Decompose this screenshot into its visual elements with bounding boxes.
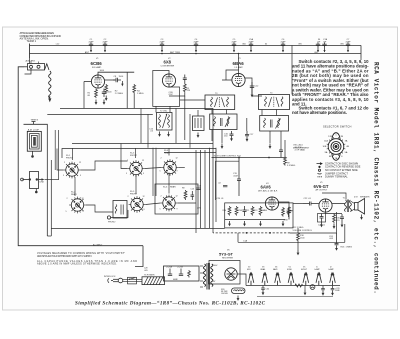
bottom notes text: [37, 252, 137, 265]
capacitor C5A: [249, 42, 253, 52]
wafer pin digits S1-5: [127, 196, 145, 211]
wire 6AV6 plate out: [279, 202, 289, 206]
switch wafer S1-5: [129, 196, 146, 213]
svg-text:47PF: 47PF: [232, 41, 238, 43]
ground under R15: [333, 224, 336, 229]
wire volume line: [212, 157, 286, 159]
transformer T6 power: [142, 277, 165, 285]
ground under C16: [230, 136, 233, 141]
junction dot volume line: [238, 157, 240, 159]
wire lower horizontal rail: [51, 228, 224, 230]
svg-text:2: 2: [128, 196, 129, 198]
svg-text:C20 .01: C20 .01: [217, 198, 225, 200]
svg-text:.0047: .0047: [233, 175, 239, 177]
svg-text:4 OF 6BA6: 4 OF 6BA6: [295, 149, 306, 152]
filter choke L13: [232, 288, 246, 294]
wire feedback lower: [238, 241, 345, 243]
svg-text:40MF: 40MF: [173, 279, 179, 281]
coil L1 antenna coil: [49, 71, 51, 98]
svg-text:REAR: REAR: [71, 193, 77, 196]
svg-text:TERM 1: TERM 1: [27, 39, 37, 43]
wire term3 to right rail: [24, 124, 48, 236]
ground under padder: [197, 133, 200, 138]
svg-text:I.F. AMP.: I.F. AMP.: [235, 66, 244, 69]
svg-text:12: 12: [176, 196, 178, 198]
resistor R1 cathode: [95, 89, 98, 99]
wire routing bus C: [164, 152, 216, 154]
ground speaker: [360, 215, 363, 220]
wire AVC rail: [60, 108, 213, 110]
capacitor C1: [89, 42, 93, 52]
transformer T3 1st IF box: [205, 95, 235, 110]
svg-text:1 MEG: 1 MEG: [137, 93, 144, 95]
wire grid 6CB6 left: [84, 81, 91, 83]
resistor R14: [259, 206, 262, 216]
resistor R10: [228, 206, 231, 216]
junction dots on bus lines: [90, 45, 349, 55]
box below T3 (IF network): [210, 114, 237, 130]
wire: left bus tick: [29, 44, 31, 59]
wire B+ feed to T4: [291, 45, 293, 94]
wire vertical x127: [126, 72, 128, 108]
wafer pin digits S1-1: [63, 162, 81, 177]
svg-text:1 MEG: 1 MEG: [346, 247, 353, 249]
svg-text:11A: 11A: [324, 139, 328, 142]
svg-text:ABOVE 1.0 ARE IN MMF UNLESS OT: ABOVE 1.0 ARE IN MMF UNLESS OTHERWISE IN…: [37, 263, 117, 266]
capacitor C21: [243, 206, 247, 216]
wire risers in converter area: [141, 108, 190, 196]
wire T5 secondary to speaker: [350, 201, 354, 212]
capacitor C30 to ground: [261, 286, 265, 290]
resistor R9: [284, 156, 287, 166]
svg-text:ANT: ANT: [85, 51, 90, 54]
capacitor C8 interstage: [113, 78, 121, 82]
rectifier section box: [209, 261, 240, 285]
wire T5 top B+: [322, 193, 346, 200]
svg-text:9: 9: [143, 173, 144, 175]
svg-text:INTERLOCK: INTERLOCK: [104, 276, 116, 278]
svg-text:+C25B: +C25B: [177, 267, 184, 269]
capacitor C23 boxed: [318, 214, 326, 223]
ground dot below loop: [31, 155, 34, 158]
switch S2 on AC line: [128, 277, 137, 284]
svg-text:AND SHOULD HOLD WITHIN ±20% WI: AND SHOULD HOLD WITHIN ±20% WITH 117 V. …: [37, 255, 92, 258]
ground under R14A: [282, 221, 285, 226]
wire arrow to AVC: [121, 81, 123, 86]
wire antenna box stubs: [31, 62, 39, 64]
ground under C23: [320, 222, 323, 227]
padder box C1C: [193, 116, 205, 131]
resistor R14A right of 6AV6: [282, 207, 285, 217]
resistor R13: [251, 206, 254, 216]
svg-text:R.F. AMP.: R.F. AMP.: [92, 66, 102, 69]
svg-text:2.2 MEG: 2.2 MEG: [115, 93, 124, 95]
svg-text:REAR: REAR: [170, 185, 176, 188]
svg-text:700V: 700V: [213, 265, 218, 267]
wire link stub: [35, 189, 37, 192]
potentiometer R12 volume control: [288, 206, 293, 220]
switch wafer S1-1: [64, 162, 81, 179]
svg-text:5: 5: [126, 173, 127, 175]
wire feedback line down: [290, 212, 337, 233]
tube V3 6BA6: [232, 73, 245, 86]
svg-text:+C25A: +C25A: [166, 266, 173, 269]
wire link to wafer: [45, 179, 59, 181]
transformer T4 2nd IF box: [259, 95, 290, 110]
svg-text:25MF: 25MF: [335, 290, 341, 292]
resistor R2: [105, 84, 108, 94]
wire riser x58: [58, 130, 60, 180]
wire 6BA6 plate to T4: [245, 78, 262, 96]
wire T3 box verticals: [211, 110, 213, 115]
selector switch cam disc: [327, 133, 346, 161]
capacitor C16 to ground: [230, 131, 234, 135]
capacitor C5: [232, 42, 236, 52]
filter box C25: [164, 266, 200, 281]
svg-text:2: 2: [67, 198, 68, 200]
svg-text:12: 12: [143, 196, 145, 198]
wire heater ground bus: [257, 296, 333, 298]
wire 6AV6 out to C22: [293, 203, 303, 205]
wire L corner: [216, 161, 240, 200]
wire line1 drop to T3: [246, 118, 248, 131]
svg-text:22K: 22K: [187, 90, 191, 92]
capacitor C16A on riser: [223, 185, 227, 186]
wire wafer interconnects: [57, 144, 196, 213]
wire wafer risers: [73, 148, 170, 196]
svg-text:47PF: 47PF: [194, 41, 200, 43]
wire 6V6 plate to T5: [332, 203, 344, 205]
capacitor C2: [103, 42, 107, 52]
svg-text:.005: .005: [144, 270, 148, 272]
svg-text:C30: C30: [266, 289, 269, 291]
capacitor C24 vertical: [335, 233, 339, 245]
ground under C29: [331, 290, 334, 295]
tube V6 5Y3-GT: [225, 268, 237, 280]
selector switch legend: [325, 162, 361, 178]
ground under C12: [251, 92, 254, 97]
wire riser R15 to feedback: [344, 224, 346, 242]
svg-text:C22 .01: C22 .01: [304, 198, 312, 200]
svg-text:9: 9: [177, 171, 178, 173]
wire connector v238: [237, 233, 239, 242]
loop antenna L2: [27, 131, 41, 151]
svg-text:R8: R8: [182, 188, 184, 190]
wire rail x30: [29, 58, 31, 64]
wire T4 box verticals: [261, 110, 263, 116]
ground under C30: [262, 290, 265, 295]
svg-text:47PF: 47PF: [249, 41, 255, 43]
wafer pin digits S1-6: [160, 196, 178, 211]
ground under box T3 left: [221, 144, 224, 149]
capacitor C6: [281, 42, 285, 52]
capacitor C4: [194, 42, 198, 52]
svg-text:6AV6: 6AV6: [273, 268, 277, 271]
interlock plug P1: [108, 278, 123, 283]
capacitor C7: [346, 42, 350, 52]
wire box around 6X8: [153, 71, 180, 107]
svg-text:C13: C13: [191, 189, 194, 191]
wire heater rail: [246, 285, 340, 287]
svg-text:R13: R13: [254, 210, 257, 212]
svg-text:DUMMY TERMINAL: DUMMY TERMINAL: [325, 176, 348, 179]
capacitor C29 electrolytic: [331, 286, 335, 290]
switch wafer S1-4: [162, 159, 179, 176]
svg-text:OSC: OSC: [169, 94, 174, 96]
wire middle vertical riser group: [196, 108, 216, 233]
svg-text:LINK: LINK: [40, 182, 45, 184]
svg-text:CHOKE: CHOKE: [221, 293, 228, 295]
wafer pin digits S1-2: [66, 198, 84, 213]
loudspeaker LS1: [355, 199, 365, 215]
tube V1 6CB6: [91, 75, 104, 88]
6AV6 section box: [225, 203, 293, 228]
svg-text:C1A: C1A: [243, 239, 248, 242]
wire 5Y3 output: [237, 274, 246, 286]
phono jack box: [113, 201, 127, 219]
switch contacts paragraph 2: [292, 105, 369, 115]
wire 6CB6 to interstage: [105, 79, 115, 81]
svg-text:1MEG: 1MEG: [262, 210, 268, 212]
svg-text:5: 5: [160, 171, 161, 173]
wafer pin digits S1-4: [160, 158, 178, 173]
svg-text:AF OUTPUT: AF OUTPUT: [316, 188, 329, 191]
wire: left outer rail: [18, 67, 143, 246]
coupling capacitor C22: [303, 202, 319, 206]
svg-text:47PF: 47PF: [160, 41, 166, 43]
svg-text:SELECTOR SWITCH: SELECTOR SWITCH: [323, 125, 352, 129]
svg-text:6AV6: 6AV6: [261, 185, 272, 190]
tube V4 6AV6: [265, 197, 278, 210]
bus capacitor value labels: [56, 38, 351, 54]
svg-text:Simplified Schematic Diagram—“: Simplified Schematic Diagram—“1R8”—Chass…: [75, 300, 266, 306]
wire riser x361 to output: [360, 58, 362, 61]
svg-text:9: 9: [144, 209, 145, 211]
resistor R5: [183, 83, 186, 93]
capacitor C6A: [316, 42, 320, 52]
wire plate 6CB6 to right: [98, 72, 134, 75]
svg-text:2: 2: [161, 158, 162, 160]
resistor R11: [235, 206, 238, 216]
legend symbols: [317, 163, 323, 177]
switch wafer S1-2: [69, 197, 86, 214]
svg-text:C21: C21: [246, 210, 249, 212]
resistor R19 on heater rail: [295, 284, 303, 287]
ground under C24: [335, 245, 338, 250]
capacitor C19: [237, 158, 241, 197]
capacitor C31 to ground: [321, 286, 325, 290]
ground under C5: [103, 100, 106, 105]
switch wafer S1-6: [161, 195, 178, 212]
svg-text:T6 POWER: T6 POWER: [144, 275, 155, 277]
svg-text:6V6GT: 6V6GT: [301, 269, 308, 271]
svg-text:5: 5: [66, 211, 67, 213]
phono jack J1: [107, 216, 110, 219]
ground under C24A: [341, 222, 344, 227]
svg-text:T2 OSC: T2 OSC: [160, 111, 168, 113]
wafer pin digits S1-3: [126, 160, 144, 175]
svg-text:5: 5: [160, 209, 161, 211]
svg-text:6BA6: 6BA6: [261, 268, 266, 271]
svg-text:FRONT: FRONT: [130, 194, 138, 196]
ground mid heater rail: [304, 290, 307, 295]
tube V2 6X8: [162, 74, 175, 87]
svg-text:5: 5: [63, 175, 64, 177]
svg-text:12: 12: [79, 162, 81, 164]
svg-text:470K: 470K: [238, 210, 243, 212]
resistor R15 cathode 6V6: [333, 214, 336, 224]
ground under R18: [297, 250, 300, 255]
capacitor C21A right of 6AV6: [287, 207, 291, 217]
svg-text:9: 9: [83, 211, 84, 213]
svg-text:47PF: 47PF: [281, 41, 287, 43]
svg-text:AC INPUT: AC INPUT: [93, 243, 103, 246]
wire osc section: [169, 93, 185, 96]
svg-text:RCA Victor Model 1R81, Chassis: RCA Victor Model 1R81, Chassis RC-1102, …: [373, 62, 380, 294]
ground under T4 box: [269, 144, 272, 149]
wire riser x55: [54, 130, 56, 170]
svg-text:12: 12: [176, 158, 178, 160]
svg-text:VOLUME CONTROL: VOLUME CONTROL: [293, 230, 313, 232]
dial lamp symbol: [310, 285, 315, 290]
svg-text:5Y3-GT: 5Y3-GT: [219, 251, 234, 256]
capacitor C24A bypass: [340, 214, 344, 222]
svg-text:9: 9: [177, 209, 178, 211]
svg-text:2: 2: [161, 196, 162, 198]
wire rail y114: [47, 114, 153, 116]
capacitor C9 osc grid: [183, 75, 187, 84]
svg-text:PHONO: PHONO: [108, 222, 116, 224]
wire rail x51: [50, 160, 52, 236]
wire: right bus drop: [360, 45, 362, 57]
ground below L1: [48, 98, 51, 102]
terminal bar term3: [32, 122, 36, 125]
wire 6BA6 grid top hook: [226, 70, 239, 80]
svg-text:CONVERTER: CONVERTER: [161, 66, 175, 68]
capacitor C6B: [322, 42, 326, 52]
wire vertical x134: [133, 94, 135, 109]
svg-text:6X8: 6X8: [247, 269, 250, 271]
wire R9 riser: [284, 140, 286, 156]
ground under choke: [237, 296, 240, 301]
capacitor C3: [160, 42, 164, 52]
switch contacts paragraph 1: [292, 59, 369, 107]
capacitor C5 cathode bypass: [102, 89, 106, 98]
svg-text:LAMP: LAMP: [315, 268, 321, 271]
capacitor C14 in riser: [197, 188, 201, 189]
svg-text:9: 9: [80, 175, 81, 177]
transformer T2 oscillator box: [157, 113, 173, 131]
svg-text:2: 2: [64, 162, 65, 164]
svg-text:FRONT: FRONT: [130, 155, 138, 157]
svg-text:12: 12: [142, 160, 144, 162]
band switch box around S1-6: [155, 184, 198, 214]
svg-text:10B: 10B: [322, 146, 326, 148]
ground under C31: [322, 290, 325, 295]
wire 6BA6 grid from T3: [222, 79, 232, 81]
wire plug to T6: [123, 279, 142, 281]
wire loop bottom stub: [32, 151, 34, 155]
ground under R2: [105, 96, 108, 101]
svg-text:LAMP: LAMP: [329, 268, 335, 271]
selector switch radial position labels: [322, 135, 349, 160]
svg-text:47PF: 47PF: [89, 41, 95, 43]
transformer T6 secondary windings: [200, 263, 213, 290]
wire band switch routing bus A: [72, 143, 213, 145]
svg-text:2: 2: [127, 160, 128, 162]
antenna link contact cluster: [23, 172, 45, 189]
resistor R4: [133, 84, 136, 94]
wire band switch routing bus B: [62, 149, 216, 159]
wire corner down from bottom rail: [135, 246, 143, 267]
svg-text:3.3 MEG: 3.3 MEG: [287, 165, 296, 167]
svg-text:12B: 12B: [328, 136, 332, 138]
svg-text:6CB6: 6CB6: [287, 269, 292, 271]
svg-text:R10: R10: [223, 210, 226, 212]
wire phono to wafer: [111, 210, 128, 218]
wire coil to ground arrow: [49, 96, 51, 99]
svg-text:47PF: 47PF: [103, 41, 109, 43]
transformer T5 output: [345, 200, 352, 213]
svg-text:A.M. ANT.: A.M. ANT.: [26, 60, 36, 63]
terminal strip 300 ohm antenna input: [24, 64, 49, 71]
ground under T2 right: [167, 132, 170, 137]
ground under R1: [95, 100, 98, 105]
wire: rail from terminal down to loop: [25, 68, 32, 74]
svg-text:ANT TRIM: ANT TRIM: [170, 51, 180, 54]
ground under C17: [246, 136, 249, 141]
tube V5 6V6-GT: [319, 199, 332, 212]
junction dots on AF line: [246, 232, 248, 234]
ground dot under link: [35, 191, 38, 194]
wire rail x47 lower: [47, 235, 51, 237]
wire dashed mechanical link: [213, 232, 290, 234]
wire gnd stub: [304, 286, 306, 291]
wire: antenna bus line 2: [30, 53, 362, 55]
wire 6BA6 grid feed from bus: [238, 54, 240, 70]
capacitor C17 to ground: [245, 131, 249, 136]
switch wafer S1-3: [128, 160, 145, 177]
wire grid return 6CB6: [83, 82, 85, 109]
wire 6X8 to T3 primary: [180, 99, 205, 101]
wire verticals below 6X8 area: [155, 106, 157, 112]
svg-text:6CB6: 6CB6: [91, 61, 103, 66]
svg-text:RECTIFIER: RECTIFIER: [222, 257, 233, 259]
capacitor C12 screen: [250, 82, 254, 92]
svg-text:5: 5: [127, 209, 128, 211]
svg-text:12: 12: [82, 198, 84, 200]
svg-text:6V6-GT: 6V6-GT: [314, 184, 329, 189]
ground under T2 left: [158, 132, 161, 137]
resistor R18 bias: [297, 228, 300, 250]
svg-text:SPEAKER: SPEAKER: [360, 195, 370, 198]
ground row under 6AV6 parts: [228, 221, 231, 226]
antenna note text block: [20, 31, 62, 43]
svg-text:not have alternate positions.: not have alternate positions.: [292, 110, 347, 115]
svg-text:DET, AVC & 1ST A.F.: DET, AVC & 1ST A.F.: [258, 189, 278, 192]
wire 6AV6 bottom rail: [225, 219, 285, 221]
wire: B+ bus line 1: [30, 45, 362, 47]
wire 6V6 cathode: [326, 212, 343, 213]
capacitor C18 on riser: [279, 148, 283, 158]
svg-text:6X8: 6X8: [164, 60, 172, 65]
box below T4 (IF network): [260, 116, 289, 132]
svg-text:47PF: 47PF: [346, 41, 352, 43]
svg-text:4×6": 4×6": [354, 195, 358, 198]
terminal circle link: [21, 178, 24, 181]
